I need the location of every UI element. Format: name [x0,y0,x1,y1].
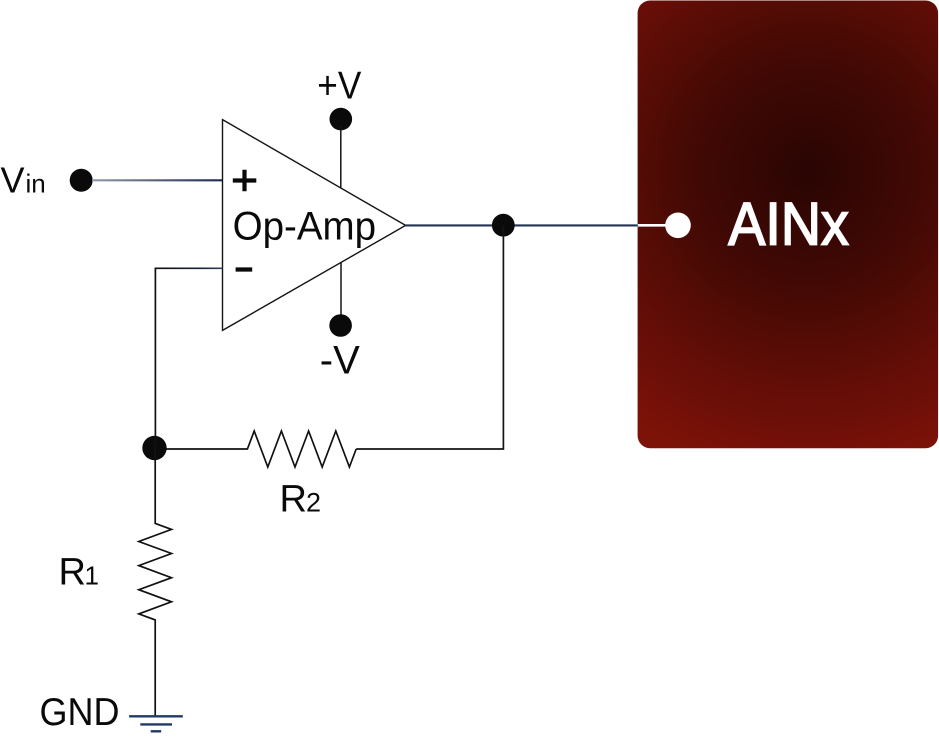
wire -V to op-amp [340,263,342,320]
svg-text:GND: GND [40,691,120,734]
ground [129,716,183,731]
AINx block [638,1,939,449]
node Vin terminal dot [70,169,93,192]
op-amp - input symbol [236,267,253,271]
power +V terminal dot [330,108,353,131]
svg-text:+V: +V [317,65,361,108]
wire +V to op-amp [340,126,342,188]
wire AINx internal white lead [638,224,678,227]
svg-text:Vin: Vin [1,159,46,200]
wire Vin to op-amp + input [92,179,223,181]
wire output down to R2 [356,225,503,449]
svg-text:AINx: AINx [728,191,849,258]
svg-text:R2: R2 [280,479,321,521]
svg-text:-V: -V [320,338,360,382]
node AINx terminal white dot [665,213,691,239]
wire feedback junction to op-amp - input [155,268,222,448]
junction feedback node [142,436,166,460]
wire op-amp output to AINx [406,224,638,226]
resistor R2 [155,431,357,467]
svg-text:R1: R1 [59,552,99,594]
op-amp + input symbol [233,170,256,192]
resistor R1 [139,448,172,716]
op-amp U1 triangle [223,120,406,331]
svg-text:Op-Amp: Op-Amp [233,204,377,248]
power -V terminal dot [329,314,352,337]
junction output node [492,214,515,237]
